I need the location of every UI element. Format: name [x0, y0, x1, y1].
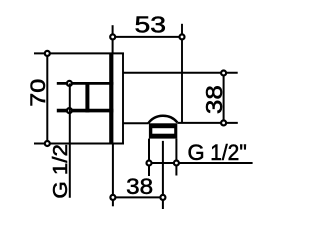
outlet nut white interior	[152, 128, 174, 134]
inlet square bottom edge / G1/2 dim line bottom	[57, 109, 114, 113]
outlet G1/2" right extension line	[175, 139, 177, 176]
dim 53: left circle	[110, 34, 115, 39]
body top edge, extended right as dim-38 reference	[123, 72, 238, 74]
dim 53: right extension line / body right edge	[181, 24, 183, 123]
wall plate right edge	[122, 53, 124, 143]
inlet leader vertical line down to G 1/2 label level	[69, 83, 71, 197]
dim 38 bottom: right circle	[160, 195, 165, 200]
outlet dome arc	[148, 116, 177, 124]
dim 70: dimension line	[46, 53, 48, 143]
dim 38 bottom: left circle	[110, 195, 115, 200]
dim 70: bottom extension line / plate bottom edge	[34, 143, 124, 145]
dim 70: bottom circle terminator	[45, 141, 50, 146]
wall plate left edge (thick)	[109, 53, 113, 143]
inlet dim bottom circle	[67, 108, 72, 113]
svg-text:G 1/2: G 1/2	[50, 144, 72, 199]
body bottom edge left of outlet	[123, 122, 149, 124]
svg-text:53: 53	[135, 12, 167, 38]
svg-text:70: 70	[26, 79, 50, 107]
svg-text:38: 38	[126, 174, 153, 199]
svg-text:38: 38	[201, 85, 227, 114]
dim 38 right: top circle	[221, 71, 226, 76]
dim 38 right: bottom circle	[221, 120, 226, 125]
inlet square left edge (thick)	[85, 82, 89, 112]
dim 70: top extension line / plate top edge	[34, 52, 124, 54]
dim 70: top circle terminator	[45, 51, 50, 56]
outlet nut (thick rectangle)	[149, 123, 177, 138]
outlet G1/2" right circle	[174, 161, 179, 166]
dim 53: right circle	[180, 34, 185, 39]
outlet G1/2" left extension line	[148, 139, 150, 176]
dim 53: dimension line	[113, 36, 182, 38]
dim 38 bottom: left extension line from plate	[112, 144, 114, 207]
outlet center line down to bottom dim	[162, 141, 164, 209]
svg-text:G: G	[188, 140, 205, 165]
dim 38 bottom: dimension line	[113, 196, 163, 198]
dim 38 right: dimension line	[223, 73, 225, 123]
inlet square top edge / G1/2 dim line top	[57, 82, 114, 85]
dim 53: left extension line (above plate)	[112, 25, 114, 53]
inlet dim top circle	[67, 81, 72, 86]
outlet G1/2" left circle	[147, 161, 152, 166]
svg-text:1/2": 1/2"	[210, 140, 247, 165]
outlet G1/2" dim line with leader to label	[149, 162, 253, 164]
body bottom edge right of outlet, extended as dim-38 reference	[177, 122, 237, 124]
